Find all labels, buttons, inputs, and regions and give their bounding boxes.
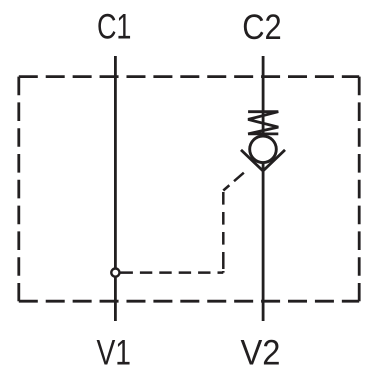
pilot line: diagonal dashed segment to seat [223,166,251,190]
pilot line: horizontal dashed segment [121,271,224,274]
wire C1 to V1 (main line) [114,56,117,321]
valve body enclosure: right dashed border [358,77,361,302]
svg-text:V2: V2 [241,332,281,372]
svg-text:C2: C2 [242,7,282,47]
valve body enclosure: bottom dashed border [19,300,359,303]
pilot line: vertical dashed segment [222,192,225,273]
check valve ball [250,136,277,163]
svg-text:V1: V1 [96,332,131,372]
wire C2 to V2 (main line) [262,56,265,321]
check valve seat (V) [241,150,285,171]
valve body enclosure: left dashed border [17,77,20,302]
pilot tap node (open circle junction) [111,269,119,277]
spring (check valve spring) [248,112,278,134]
valve body enclosure: top dashed border [19,75,359,78]
svg-text:C1: C1 [97,7,132,47]
